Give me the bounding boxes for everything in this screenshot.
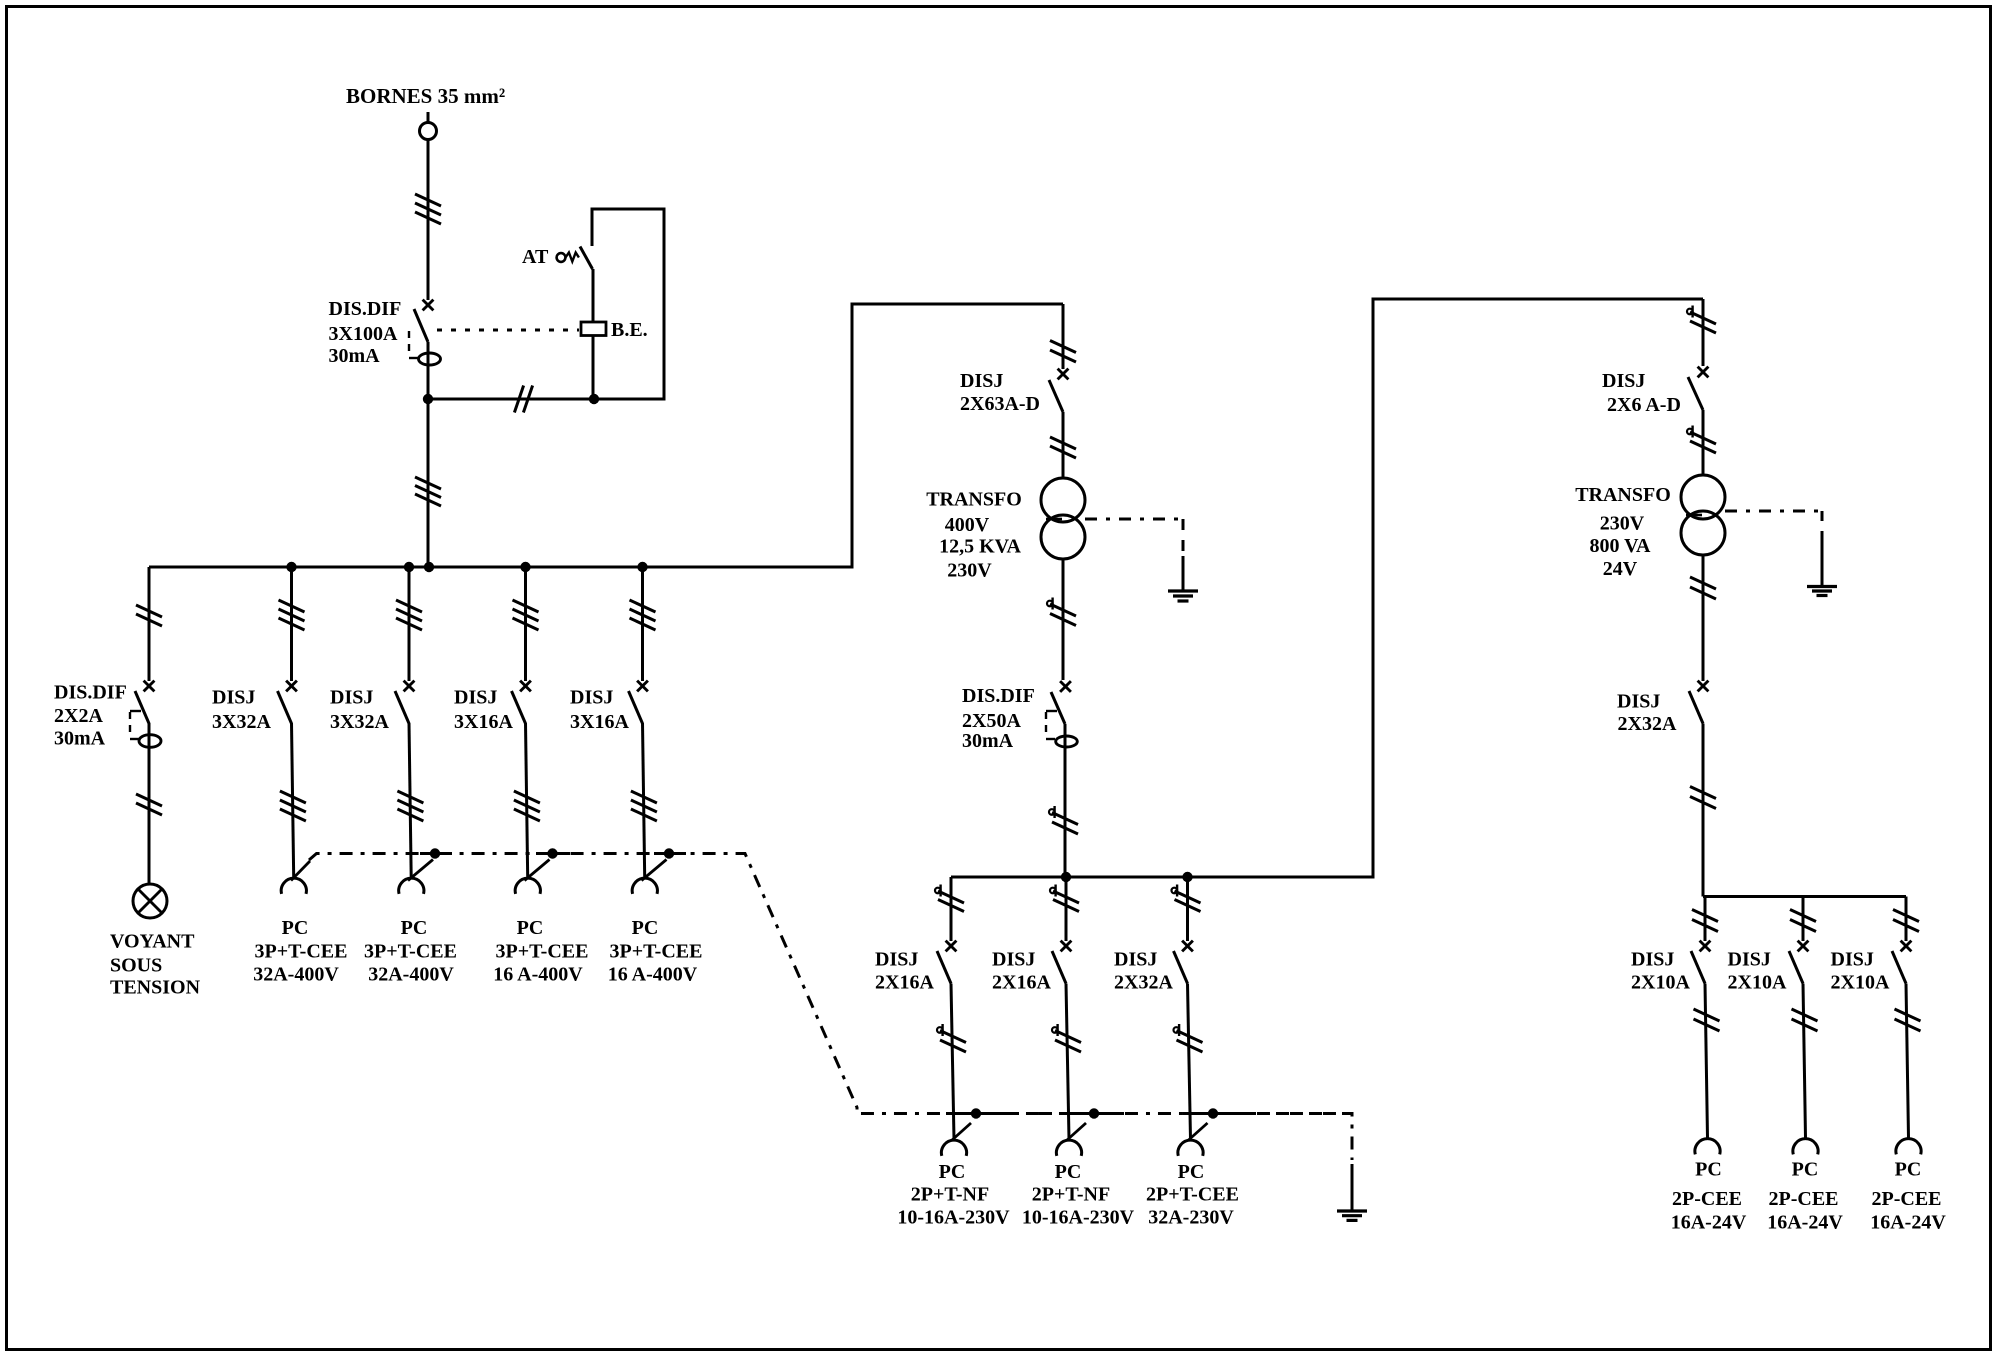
svg-text:PC: PC [282, 917, 309, 939]
earth link solid at PC2 [536, 852, 570, 855]
svg-text:2X6 A-D: 2X6 A-D [1607, 394, 1681, 416]
wire: T2 earth drop [1821, 540, 1824, 586]
svg-text:12,5 KVA: 12,5 KVA [939, 536, 1021, 558]
wire: 230V branch 1 lower [951, 984, 954, 1140]
label DISJ 2X6 A-D [1602, 370, 1681, 416]
wire: 400V branch 3 upper [524, 567, 527, 681]
svg-text:VOYANT: VOYANT [110, 931, 195, 953]
svg-text:PC: PC [1055, 1161, 1082, 1183]
wire: branch 1 lower [292, 723, 294, 877]
svg-text:2X16A: 2X16A [992, 972, 1051, 994]
socket PC 2P-CEE 16A-24V #1 [1695, 1139, 1720, 1155]
junction on bus at DISJ 3X16A #2 [637, 562, 647, 572]
circuit breaker DISJ 2X32A (230V #3) [1174, 941, 1193, 984]
svg-text:DISJ: DISJ [454, 687, 497, 709]
svg-text:TENSION: TENSION [110, 977, 201, 999]
svg-text:800 VA: 800 VA [1590, 535, 1652, 557]
wire: T1 earth drop [1182, 556, 1185, 590]
svg-text:DIS.DIF: DIS.DIF [54, 682, 127, 704]
indicator lamp VOYANT SOUS TENSION [133, 884, 167, 918]
svg-text:BORNES 35 mm²: BORNES 35 mm² [346, 84, 505, 108]
wire: DISJ to transformer T2 [1702, 410, 1705, 475]
2-wire ticks below T2 [1690, 577, 1716, 599]
wire: breaker to lamp [148, 723, 151, 885]
label DISJ 2X10A #2 [1728, 949, 1787, 994]
svg-text:B.E.: B.E. [611, 319, 648, 341]
circuit breaker DISJ 2X10A #3 [1892, 941, 1911, 984]
svg-text:2P-CEE: 2P-CEE [1769, 1188, 1839, 1210]
wire: feed from terminal to DIS.DIF [427, 140, 430, 301]
circuit breaker DIS.DIF 2X50A 30mA [1046, 681, 1077, 747]
2-wire ticks with neutral flag above 230V bus [1049, 806, 1078, 834]
ground symbol 230V PE [1337, 1211, 1367, 1220]
2-wire ticks 24V branch 1 upper [1692, 910, 1718, 932]
earth link transformer T2 (dash-dot) [1725, 511, 1823, 541]
junction on bus at DISJ 3X16A #1 [520, 562, 530, 572]
label DISJ 2X16A (230V #1) [875, 949, 934, 994]
junction: earth at PC 2X32A [1208, 1108, 1218, 1118]
svg-text:3P+T-CEE: 3P+T-CEE [255, 941, 348, 963]
3-phase ticks branch 1 upper [279, 600, 305, 630]
svg-text:PC: PC [1895, 1159, 1922, 1181]
svg-text:DIS.DIF: DIS.DIF [962, 685, 1035, 707]
label PC 2P+T-CEE 32A-230V (230V) [1146, 1161, 1239, 1229]
2-wire ticks with neutral flag above transformer T2 [1687, 426, 1716, 454]
relay coil B.E. [581, 322, 606, 336]
socket PC 3P+T-CEE 32A-400V [281, 861, 310, 894]
socket PC 2P+T-NF 10-16A-230V (230V) [941, 1123, 971, 1156]
2-wire ticks 24V branch 1 lower [1694, 1009, 1720, 1031]
svg-text:2X16A: 2X16A [875, 972, 934, 994]
circuit breaker DIS.DIF 2X2A 30mA [130, 681, 161, 748]
wire: DIS.DIF 2X50A to 230V bus [1064, 724, 1067, 877]
junction: earth at PC 2X16A #2 [1089, 1108, 1099, 1118]
junction on bus at DISJ 3X32A #1 [286, 562, 296, 572]
svg-text:DISJ: DISJ [212, 687, 255, 709]
ground symbol T2 [1807, 587, 1837, 596]
wire: bus riser to 230V feeder [851, 303, 854, 569]
2-wire ticks 24V branch 3 lower [1895, 1009, 1921, 1031]
label DISJ 3X16A #3 [454, 687, 513, 734]
circuit breaker DISJ 2X32A [1689, 681, 1708, 724]
svg-text:3X100A: 3X100A [329, 323, 398, 345]
label DISJ 3X16A #4 [570, 687, 629, 734]
svg-text:32A-230V: 32A-230V [1148, 1207, 1234, 1229]
3-phase tick marks on feed [415, 194, 441, 224]
3-phase tick marks on main drop [415, 477, 441, 506]
wire: transformer branch top [1062, 304, 1065, 369]
earth link wire (left, dash-dot) [309, 854, 1352, 1114]
svg-text:2P+T-NF: 2P+T-NF [1032, 1184, 1110, 1206]
wire: control loop top [591, 208, 666, 211]
svg-text:2X2A: 2X2A [54, 705, 103, 727]
wire: voyant branch upper [148, 567, 151, 681]
2-wire ticks with neutral flag above DISJ 2X6A-D [1687, 306, 1716, 334]
label VOYANT SOUS TENSION [110, 931, 201, 999]
svg-text:3X16A: 3X16A [454, 711, 513, 733]
earth link dash between PC A and PC B [1006, 1112, 1064, 1115]
svg-text:DISJ: DISJ [1631, 949, 1674, 971]
socket PC 2P+T-NF 10-16A-230V (230V) [1056, 1123, 1086, 1156]
label B.E. [611, 319, 648, 341]
earth link solid at PC A [946, 1112, 1006, 1115]
svg-text:DIS.DIF: DIS.DIF [329, 298, 402, 320]
earth link solid at PC B [1064, 1112, 1124, 1115]
label PC 2P-CEE 16A-24V #1 [1671, 1159, 1747, 1234]
svg-text:2X63A-D: 2X63A-D [960, 393, 1040, 415]
svg-text:24V: 24V [1603, 558, 1638, 580]
svg-text:PC: PC [1792, 1159, 1819, 1181]
svg-text:16A-24V: 16A-24V [1870, 1212, 1946, 1234]
wire: branch 4 lower [643, 723, 645, 877]
2-wire ticks with neutral flag 230V branch 3 upper [1172, 885, 1201, 912]
2-wire ticks with neutral flag 230V branch 1 upper [935, 885, 964, 912]
svg-text:16A-24V: 16A-24V [1671, 1212, 1747, 1234]
2-wire ticks above 24V bus [1690, 787, 1716, 809]
label BORNES 35 mm&#178; [346, 84, 505, 108]
svg-text:3X32A: 3X32A [330, 711, 389, 733]
label PC 3P+T-CEE 32A-400V [364, 917, 457, 986]
circuit breaker DISJ 3X16A #4 [629, 681, 648, 724]
label DISJ 2X16A (230V #2) [992, 949, 1051, 994]
junction: 230V bus at feed [1061, 872, 1071, 882]
wire: 400V branch 1 upper [290, 567, 293, 681]
label AT [522, 246, 549, 268]
svg-text:2P+T-NF: 2P+T-NF [911, 1184, 989, 1206]
2-wire tick marks on control loop wire [514, 386, 532, 413]
socket PC 3P+T-CEE 16 A-400V [515, 860, 549, 894]
ground symbol T1 [1168, 591, 1198, 601]
label DISJ 2X32A (230V #3) [1114, 949, 1173, 994]
2-wire ticks above lamp [136, 794, 162, 815]
wire: top link to transformer T2 [1372, 298, 1704, 301]
svg-text:DISJ: DISJ [1602, 370, 1645, 392]
svg-text:3P+T-CEE: 3P+T-CEE [364, 941, 457, 963]
svg-text:16A-24V: 16A-24V [1767, 1212, 1843, 1234]
wire: B.E. to bus [592, 336, 595, 400]
wire: branch 3 lower [526, 723, 528, 877]
junction on bus at DISJ 3X32A #2 [404, 562, 414, 572]
wire: T2 branch top [1702, 299, 1705, 366]
svg-text:30mA: 30mA [962, 730, 1014, 752]
label PC 2P-CEE 16A-24V #3 [1870, 1159, 1946, 1234]
circuit breaker DISJ 2X10A #2 [1789, 941, 1808, 984]
2-wire ticks with neutral flag 230V branch 1 lower [937, 1024, 966, 1052]
label DIS.DIF 2X2A 30mA [54, 682, 127, 750]
earth link solid at PC3 [654, 852, 686, 855]
svg-text:3X16A: 3X16A [570, 711, 629, 733]
svg-text:30mA: 30mA [329, 345, 381, 367]
svg-text:DISJ: DISJ [330, 687, 373, 709]
transformer TRANSFO 400V/230V 12,5 KVA [1041, 478, 1085, 559]
wire: 24V branch 3 upper [1905, 897, 1908, 942]
2-wire ticks 24V branch 2 upper [1790, 910, 1816, 932]
label DISJ 2X32A [1617, 691, 1677, 736]
circuit breaker DISJ 3X32A #1 [278, 681, 297, 724]
wire: feed junction to main bus [427, 399, 430, 567]
wire: DISJ to transformer [1062, 412, 1065, 478]
svg-text:10-16A-230V: 10-16A-230V [897, 1207, 1010, 1229]
label PC 3P+T-CEE 32A-400V [253, 917, 347, 986]
socket PC 3P+T-CEE 32A-400V [399, 860, 433, 894]
circuit breaker DISJ 2X16A (230V #2) [1052, 941, 1071, 984]
earth link solid at PC C [1183, 1112, 1243, 1115]
2-wire ticks above DISJ 2X63A-D [1050, 341, 1076, 363]
wire: bottom of control loop [428, 398, 664, 401]
2-wire ticks above transformer T1 [1050, 437, 1076, 458]
dashed trip link DIS.DIF to B.E. [437, 329, 579, 332]
svg-text:2X32A: 2X32A [1114, 972, 1173, 994]
label DISJ 3X32A #2 [330, 687, 389, 734]
3-phase ticks branch 2 upper [396, 600, 422, 630]
svg-text:2P-CEE: 2P-CEE [1672, 1188, 1742, 1210]
svg-text:2X10A: 2X10A [1831, 972, 1890, 994]
svg-text:3X32A: 3X32A [212, 711, 271, 733]
socket PC 3P+T-CEE 16 A-400V [632, 860, 666, 894]
svg-text:DISJ: DISJ [992, 949, 1035, 971]
wire: 400V branch 2 upper [408, 567, 411, 681]
svg-text:2X32A: 2X32A [1618, 713, 1677, 735]
svg-text:PC: PC [517, 917, 544, 939]
svg-text:10-16A-230V: 10-16A-230V [1022, 1207, 1135, 1229]
label PC 2P-CEE 16A-24V #2 [1767, 1159, 1843, 1234]
label PC 2P+T-NF 10-16A-230V (230V) [897, 1161, 1010, 1229]
label DIS.DIF 2X50A 30mA [962, 685, 1035, 752]
label DISJ 2X10A #3 [1831, 949, 1890, 994]
wire: 230V branch 3 lower [1188, 984, 1191, 1140]
label PC 2P+T-NF 10-16A-230V (230V) [1022, 1161, 1135, 1229]
wire: top link to transformer branch [851, 303, 1064, 306]
wire: 230V branch 3 upper [1186, 877, 1189, 941]
junction: DIS.DIF output node [423, 394, 433, 404]
socket PC 2P-CEE 16A-24V #3 [1896, 1139, 1921, 1155]
terminal BORNES 35 mm2 [420, 112, 437, 140]
wire: control loop right side [663, 208, 666, 401]
wire: 24V bus [1703, 895, 1906, 898]
svg-text:230V: 230V [947, 560, 992, 582]
wire: 24V branch 1 upper [1704, 897, 1707, 942]
circuit breaker DISJ 3X32A #2 [395, 681, 414, 724]
label PC 3P+T-CEE 16 A-400V [608, 917, 703, 986]
junction: earth at PC 3X32A #2 [430, 848, 440, 858]
3-phase ticks branch 3 upper [513, 600, 539, 630]
pushbutton AT [557, 247, 593, 270]
wire: 24V branch 1 lower [1705, 984, 1708, 1138]
wire: loop to AT switch [591, 208, 594, 247]
svg-text:PC: PC [632, 917, 659, 939]
2-wire ticks 24V branch 2 lower [1792, 1009, 1818, 1031]
3-phase ticks branch 2 lower [397, 791, 423, 821]
label DISJ 2X10A #1 [1631, 949, 1690, 994]
junction on bus at main feed [424, 562, 434, 572]
svg-text:32A-400V: 32A-400V [368, 964, 454, 986]
2-wire ticks with neutral flag 230V branch 2 upper [1050, 885, 1079, 912]
svg-text:2P-CEE: 2P-CEE [1872, 1188, 1942, 1210]
svg-text:TRANSFO: TRANSFO [926, 489, 1022, 511]
svg-text:30mA: 30mA [54, 728, 106, 750]
earth link wire (230V, dash-dot) [1243, 1114, 1352, 1161]
wire: 230V branch 2 upper [1065, 877, 1068, 941]
label TRANSFO 400V 12,5 KVA 230V [926, 489, 1022, 582]
wire: 24V branch 2 lower [1803, 984, 1806, 1138]
junction: earth at PC 2X16A #1 [971, 1108, 981, 1118]
wire: 24V branch 3 lower [1906, 984, 1909, 1138]
3-phase ticks branch 1 lower [280, 791, 306, 821]
2-wire ticks with neutral flag below T1 [1047, 598, 1076, 626]
wire: DISJ 2X32A to 24V bus [1702, 724, 1705, 897]
wire: 230V bus [951, 876, 1373, 879]
transformer TRANSFO 230V/24V 800 VA [1681, 475, 1725, 555]
svg-text:PC: PC [1178, 1161, 1205, 1183]
circuit breaker DISJ 2X63A-D [1049, 369, 1068, 412]
svg-text:DISJ: DISJ [1728, 949, 1771, 971]
circuit breaker DIS.DIF 3X100A 30mA [409, 300, 441, 365]
label PC 3P+T-CEE 16 A-400V [493, 917, 588, 986]
svg-text:PC: PC [939, 1161, 966, 1183]
svg-text:DISJ: DISJ [1617, 691, 1660, 713]
svg-text:AT: AT [522, 246, 549, 268]
svg-text:TRANSFO: TRANSFO [1575, 484, 1671, 506]
svg-text:32A-400V: 32A-400V [253, 964, 339, 986]
svg-text:DISJ: DISJ [570, 687, 613, 709]
svg-text:SOUS: SOUS [110, 955, 162, 977]
wire: T2 to DISJ 2X32A [1702, 555, 1705, 681]
wire: 230V branch 2 lower [1066, 984, 1069, 1140]
socket PC 2P+T-CEE 32A-230V (230V) [1178, 1123, 1208, 1156]
wire: 230V branch 1 upper [950, 877, 953, 941]
svg-text:2X10A: 2X10A [1631, 972, 1690, 994]
wire: branch 2 lower [409, 723, 411, 877]
junction: earth at PC 3X16A #2 [664, 848, 674, 858]
wire: AT to B.E. coil [592, 269, 595, 322]
label DIS.DIF 3X100A 30mA [329, 298, 402, 367]
label DISJ 3X32A #1 [212, 687, 271, 734]
junction: B.E. branch node [589, 394, 599, 404]
wire: main 400V bus [149, 566, 852, 569]
svg-text:16 A-400V: 16 A-400V [493, 964, 583, 986]
wire: DIS.DIF to junction [427, 342, 430, 399]
circuit breaker DISJ 2X6 A-D [1688, 367, 1708, 410]
svg-text:DISJ: DISJ [1831, 949, 1874, 971]
earth link solid at PC1 [420, 852, 452, 855]
2-wire ticks voyant branch [136, 605, 162, 626]
earth link transformer T1 (dash-dot) [1085, 519, 1184, 558]
2-wire ticks 24V branch 3 upper [1893, 910, 1919, 932]
circuit breaker DISJ 2X10A #1 [1691, 941, 1710, 984]
wire: 230V bus riser to 24V feeder [1372, 298, 1375, 879]
svg-text:DISJ: DISJ [875, 949, 918, 971]
circuit breaker DISJ 3X16A #3 [512, 681, 531, 724]
svg-text:3P+T-CEE: 3P+T-CEE [610, 941, 703, 963]
2-wire ticks with neutral flag 230V branch 3 lower [1174, 1024, 1203, 1052]
svg-text:3P+T-CEE: 3P+T-CEE [496, 941, 589, 963]
socket PC 2P-CEE 16A-24V #2 [1793, 1139, 1818, 1155]
wire: 24V branch 2 upper [1802, 897, 1805, 942]
svg-text:230V: 230V [1600, 513, 1645, 535]
label TRANSFO 230V 800 VA 24V [1575, 484, 1671, 580]
wire: earth drop to ground (230V) [1351, 1164, 1354, 1211]
svg-text:PC: PC [1695, 1159, 1722, 1181]
svg-text:2P+T-CEE: 2P+T-CEE [1146, 1184, 1239, 1206]
svg-text:2X50A: 2X50A [962, 710, 1021, 732]
svg-text:PC: PC [401, 917, 428, 939]
svg-text:DISJ: DISJ [1114, 949, 1157, 971]
circuit breaker DISJ 2X16A (230V #1) [937, 941, 956, 984]
svg-text:DISJ: DISJ [960, 370, 1003, 392]
wire: 400V branch 4 upper [641, 567, 644, 681]
label DISJ 2X63A-D [960, 370, 1040, 415]
2-wire ticks with neutral flag 230V branch 2 lower [1052, 1024, 1081, 1052]
svg-text:16 A-400V: 16 A-400V [608, 964, 698, 986]
svg-text:400V: 400V [945, 514, 990, 536]
wire: transformer to DIS.DIF 2X50A [1062, 559, 1065, 680]
junction: 230V bus at DISJ 2X32A (230V) [1182, 872, 1192, 882]
3-phase ticks branch 4 upper [630, 600, 656, 630]
3-phase ticks branch 3 lower [514, 791, 540, 821]
junction: earth at PC 3X16A #1 [547, 848, 557, 858]
3-phase ticks branch 4 lower [631, 791, 657, 821]
svg-text:2X10A: 2X10A [1728, 972, 1787, 994]
